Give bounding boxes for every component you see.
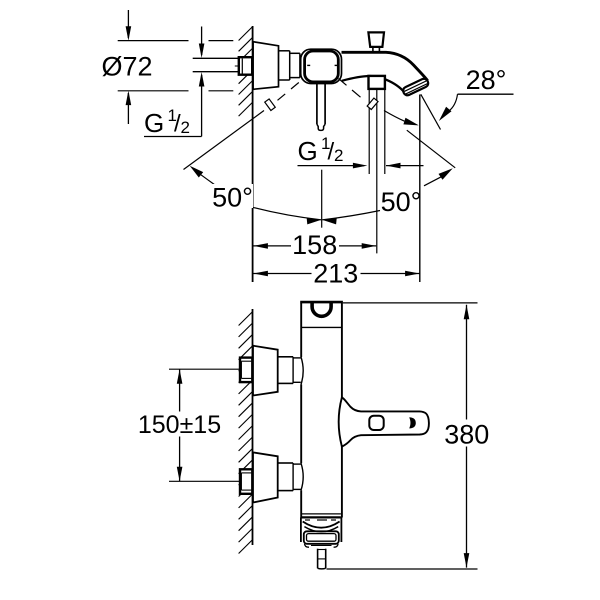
arc meeting arrows (307, 218, 337, 224)
svg-text:Ø72: Ø72 (101, 52, 152, 82)
lever mark (409, 417, 416, 428)
top S-union connector (278, 357, 301, 384)
wall union nut (239, 57, 252, 74)
diverter knob (368, 32, 384, 51)
body step cylinder 1 (279, 51, 290, 80)
label 50 degrees right (381, 187, 422, 217)
spout top edge (342, 52, 428, 80)
body step cylinder 2 (290, 53, 300, 77)
dimension Ø72 extension lines (118, 41, 234, 91)
label 50 degrees left (211, 183, 253, 213)
svg-text:2: 2 (181, 118, 190, 137)
spout angle flow line (421, 94, 441, 129)
dimension 380 extension lines (327, 303, 478, 569)
wall escutcheon (side view) (253, 42, 278, 90)
G1/2 outlet dimension arrows (298, 163, 424, 169)
lever button (369, 416, 383, 430)
wall (front view) (239, 309, 253, 554)
svg-text:380: 380 (444, 420, 489, 450)
svg-text:50°: 50° (212, 183, 253, 213)
outlet flange (304, 531, 339, 547)
swivel projection line right (dashed) (339, 79, 379, 110)
shower holder hook (312, 303, 331, 317)
spout bottom edge (342, 76, 405, 93)
hose nipple (318, 549, 326, 569)
body seam line (301, 326, 342, 328)
left 50-degree arc arrow (190, 166, 215, 185)
mixer body (front view) (300, 302, 343, 517)
spout tip extension line (419, 95, 421, 283)
spout aerator tip (402, 77, 430, 96)
top S-union nut (240, 358, 252, 383)
vertical swivel centerline (321, 170, 323, 228)
bottom S-union escutcheon (253, 452, 278, 502)
svg-text:G: G (298, 136, 318, 166)
bottom outlet cap (301, 514, 342, 542)
dimension 150±15 (136, 369, 224, 481)
dimension 150±15 extension lines (169, 369, 252, 481)
top union body bulge (301, 357, 303, 385)
svg-text:2: 2 (334, 146, 343, 165)
bottom S-union nut (240, 469, 252, 494)
fitting extension lines (369, 89, 385, 253)
label G 1/2 (wall connection) (144, 106, 202, 138)
28-degree leader and arc (439, 94, 514, 121)
dimension 380 (444, 305, 489, 568)
bottom S-union connector (278, 463, 301, 491)
pipe thread G1/2 leader arrows (199, 27, 205, 137)
handle escutcheon (rounded square, side view) (301, 49, 342, 83)
svg-text:150±15: 150±15 (138, 411, 221, 439)
wall (side view) (239, 26, 253, 282)
inclined line through tip vertical (407, 130, 455, 168)
dimension Ø72 arrows (126, 10, 132, 124)
right ray arc arrow to tip line (384, 111, 419, 126)
supply pipe (193, 58, 252, 71)
lever handle (339, 397, 429, 446)
hand shower stem (317, 84, 325, 131)
swivel projection line left (dashed) (184, 83, 299, 170)
right 50-degree arc (322, 168, 453, 220)
svg-text:213: 213 (313, 258, 358, 288)
dimension 213 (253, 258, 419, 288)
left 50-degree arc (253, 207, 321, 219)
top S-union escutcheon (253, 346, 278, 396)
svg-text:28°: 28° (466, 65, 507, 95)
svg-text:50°: 50° (381, 187, 422, 217)
svg-text:G: G (144, 108, 164, 138)
dimension 158 (253, 230, 376, 260)
hand shower hose fitting (369, 76, 385, 89)
label G 1/2 (hand shower outlet) (298, 134, 344, 166)
svg-text:158: 158 (292, 230, 337, 260)
bottom union body bulge (301, 463, 303, 490)
